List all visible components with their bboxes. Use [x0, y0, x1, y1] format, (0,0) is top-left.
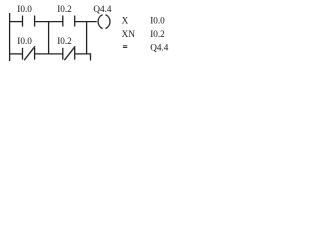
svg-text:I0.0: I0.0 [17, 4, 32, 14]
wire rung2: contact I0.2 NC to corner, stub down [75, 54, 91, 61]
svg-text:I0.0: I0.0 [17, 36, 32, 46]
svg-text:I0.2: I0.2 [57, 36, 72, 46]
svg-text:X: X [122, 16, 129, 26]
left power rail [9, 13, 11, 61]
svg-text:XN: XN [122, 29, 136, 39]
contact I0.2 NC (rung 2) [63, 46, 75, 60]
svg-text:I0.0: I0.0 [150, 16, 165, 26]
contact I0.0 NO (rung 1) [23, 16, 35, 27]
wire rung1: rail to contact I0.0 [9, 21, 22, 23]
branch vertical 2 (node after I0.2) [86, 22, 88, 54]
wire rung2: rail to contact I0.0 NC [9, 53, 22, 55]
svg-text:Q4.4: Q4.4 [150, 42, 169, 52]
wire rung2: contact I0.0 NC to contact I0.2 NC [35, 53, 63, 55]
svg-text:I0.2: I0.2 [150, 29, 165, 39]
svg-text:I0.2: I0.2 [57, 4, 72, 14]
coil Q4.4 [98, 15, 110, 29]
contact I0.0 NC (rung 2) [23, 46, 36, 60]
contact I0.2 NO (rung 1) [63, 16, 75, 27]
STL line 3: = Q4.4 [123, 46, 127, 48]
branch vertical 1 (node after I0.0) [48, 22, 50, 54]
svg-text:Q4.4: Q4.4 [93, 4, 112, 14]
wire rung1: contact I0.0 to contact I0.2 [35, 21, 63, 23]
wire rung1: contact I0.2 to coil [75, 21, 97, 23]
